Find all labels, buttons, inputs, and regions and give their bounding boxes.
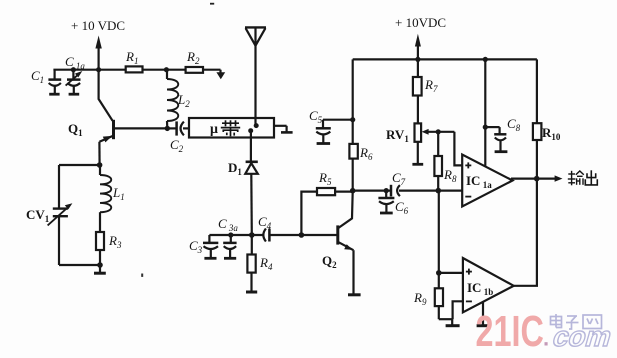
variable capacitor CV1 xyxy=(26,203,72,265)
svg-text:R8: R8 xyxy=(443,167,457,184)
node antenna tap xyxy=(254,123,259,128)
svg-text:R7: R7 xyxy=(424,77,438,94)
wire top bus xyxy=(353,58,537,60)
wire into IC1b plus xyxy=(439,272,463,274)
microstrip label mu-dai xyxy=(210,122,218,137)
wire R2 right stub with arrow xyxy=(216,70,225,80)
node bus C8 junction xyxy=(483,57,488,62)
inductor L2 xyxy=(167,70,190,129)
watermark 21IC xyxy=(476,307,550,356)
svg-text:R1: R1 xyxy=(125,49,138,66)
svg-text:C1: C1 xyxy=(31,68,44,85)
wire IC1b minus to ground xyxy=(453,301,463,319)
microstrip box U1 xyxy=(189,118,274,138)
capacitor C5 xyxy=(309,108,353,144)
svg-text:L1: L1 xyxy=(112,185,125,202)
resistor R10 xyxy=(533,59,561,178)
resistor R1 xyxy=(125,49,143,72)
wire detector rail xyxy=(209,234,262,236)
wire tank bottom xyxy=(59,264,100,266)
wire D1 to detector rail xyxy=(250,174,253,235)
resistor R7 xyxy=(413,59,438,123)
node R5/R6 junction xyxy=(350,188,356,194)
capacitor C8 xyxy=(483,116,521,152)
node C3a tap xyxy=(228,232,233,237)
capacitor C1 xyxy=(31,68,61,94)
potentiometer RV1 xyxy=(386,123,454,164)
svg-text:L2: L2 xyxy=(177,92,190,109)
svg-text:μ: μ xyxy=(210,122,218,137)
wire R8 junction to IC1b plus xyxy=(438,191,440,273)
svg-text:.: . xyxy=(543,326,549,351)
capacitor C2 xyxy=(167,121,189,154)
stray mark top xyxy=(210,3,214,5)
wire tank left upper xyxy=(58,165,60,208)
wire IC1a supply xyxy=(484,59,486,166)
capacitor C3 xyxy=(189,235,218,258)
capacitor C7 xyxy=(391,170,462,196)
node supply rail junction xyxy=(96,67,101,72)
svg-text:R9: R9 xyxy=(413,290,427,307)
power arrow (left supply) xyxy=(95,36,101,71)
resistor R2 xyxy=(186,49,203,73)
svg-text:C8: C8 xyxy=(507,116,521,133)
capacitor C1a (trimmer) xyxy=(65,54,85,94)
svg-text:C5: C5 xyxy=(309,108,323,125)
power +10VDC label (right) xyxy=(395,15,446,30)
svg-text:C 3a: C 3a xyxy=(218,216,238,233)
ground (Q2 emitter) xyxy=(348,293,361,296)
svg-text:C3: C3 xyxy=(189,238,203,255)
wire middle rail to C7 xyxy=(353,190,391,192)
capacitor C3a xyxy=(218,216,238,258)
svg-text:+ 10VDC: + 10VDC xyxy=(395,15,446,30)
wire supply to Q1 collector xyxy=(99,70,113,121)
svg-text:CV1: CV1 xyxy=(26,207,50,224)
node R8 bottom junction xyxy=(436,188,442,194)
output arrow xyxy=(555,175,563,181)
transistor Q2 xyxy=(322,192,354,294)
node tank bottom junction xyxy=(97,262,103,268)
svg-text:C6: C6 xyxy=(395,199,409,216)
svg-text:C7: C7 xyxy=(392,170,406,187)
wire box to D1 xyxy=(250,131,252,161)
wire left drop xyxy=(352,59,354,143)
node output junction xyxy=(534,176,540,182)
op-amp IC1a xyxy=(462,155,512,207)
node emitter junction xyxy=(97,162,103,168)
svg-text:D1: D1 xyxy=(228,160,242,177)
svg-text:R10: R10 xyxy=(542,125,561,142)
inductor L1 xyxy=(100,165,125,232)
svg-text:R5: R5 xyxy=(318,170,332,187)
diode D1 xyxy=(228,160,258,177)
node C5 tap xyxy=(350,117,355,122)
transistor Q1 xyxy=(68,120,167,165)
svg-text:R4: R4 xyxy=(259,255,273,272)
wire wiper to IC1a plus xyxy=(454,132,462,166)
svg-text:R6: R6 xyxy=(359,145,373,162)
resistor R5 xyxy=(317,170,353,195)
capacitor C6 xyxy=(378,191,408,216)
antenna xyxy=(245,27,266,125)
svg-text:Q2: Q2 xyxy=(322,253,337,270)
ground (microstrip right) xyxy=(274,126,293,133)
svg-text:RV1: RV1 xyxy=(386,127,409,144)
glyph 带 (drawn) xyxy=(221,120,240,136)
svg-text:C 1a: C 1a xyxy=(65,54,85,71)
node C6 tap xyxy=(384,188,389,193)
power +10VDC label (left) xyxy=(71,18,125,33)
op-amp IC1b xyxy=(463,258,514,312)
wire R5 branch xyxy=(301,192,317,235)
stray mark mid-left xyxy=(141,274,143,277)
resistor R4 xyxy=(247,235,273,291)
svg-text:com: com xyxy=(549,321,616,352)
svg-text:C4: C4 xyxy=(258,214,272,231)
svg-text:21IC: 21IC xyxy=(476,307,544,356)
resistor R3 xyxy=(96,232,122,265)
wire tank top xyxy=(59,164,100,166)
wire feedback loop right xyxy=(514,179,537,286)
watermark .com (drawn as outline text) xyxy=(549,321,616,352)
svg-text:Q1: Q1 xyxy=(68,121,83,138)
wire R9 ground run xyxy=(439,318,453,320)
svg-text:R3: R3 xyxy=(108,233,122,250)
ground (R9 / IC1b minus) xyxy=(446,319,460,326)
node D1 junction xyxy=(249,232,255,238)
resistor R8 xyxy=(434,132,457,191)
resistor R6 xyxy=(349,144,373,191)
node IC1b plus junction xyxy=(436,270,442,276)
node C2 junction xyxy=(165,126,170,131)
wire output xyxy=(511,178,556,180)
svg-text:R2: R2 xyxy=(186,49,200,66)
resistor R9 xyxy=(413,273,443,319)
ground (IC1b supply) xyxy=(477,302,490,326)
ground (R4) xyxy=(246,291,257,294)
power arrow (right supply) xyxy=(415,34,421,60)
svg-text:C2: C2 xyxy=(170,137,184,154)
node L2 top junction xyxy=(164,67,169,72)
watermark 电子网 (drawn) xyxy=(551,314,602,329)
wire top-left rail xyxy=(53,69,220,71)
svg-text:+ 10 VDC: + 10 VDC xyxy=(71,18,125,33)
node D1 tap xyxy=(248,128,253,133)
node bus supply junction xyxy=(415,57,420,62)
capacitor C4 xyxy=(258,214,272,242)
node R5 branch junction xyxy=(299,232,305,238)
glyph 输出 output label xyxy=(568,170,598,185)
node wiper junction xyxy=(436,129,441,134)
ground (tank) xyxy=(94,265,106,273)
